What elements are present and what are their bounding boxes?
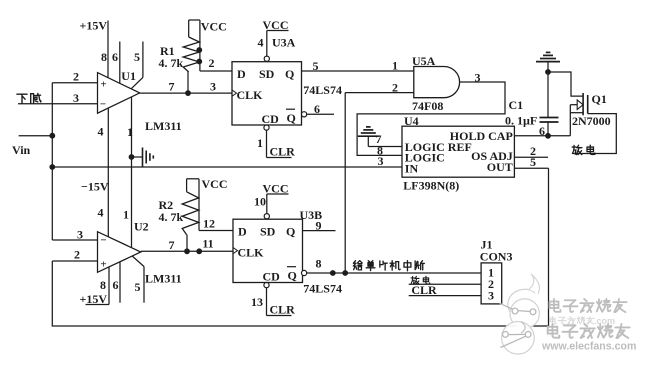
svg-text:0. 1µF: 0. 1µF [505, 114, 537, 128]
junction: ground tap on pin1 line [129, 154, 135, 160]
svg-text:2N7000: 2N7000 [572, 114, 611, 128]
svg-text:9: 9 [316, 219, 322, 233]
svg-text:LM311: LM311 [145, 272, 182, 286]
svg-text:3: 3 [475, 71, 481, 85]
U4 HOLD CAP wire pin 6 [514, 124, 570, 138]
op-amp U2 pin 2 input wire [52, 248, 97, 262]
svg-text:2: 2 [74, 248, 80, 262]
connector J1 CON3 [480, 238, 513, 304]
U3A Qbar bubble and stub pin 6 [302, 102, 335, 117]
junction: R1 bottom on U1 output [185, 90, 191, 96]
junction bus [49, 164, 55, 170]
transistor Q1 2N7000 [570, 92, 610, 136]
svg-text:74LS74: 74LS74 [303, 83, 342, 97]
svg-text:5: 5 [530, 155, 536, 169]
net label 给单片机中断 (interrupt to MCU) [353, 261, 424, 271]
svg-text:IN: IN [405, 162, 419, 176]
svg-text:OUT: OUT [487, 160, 513, 174]
svg-text:C1: C1 [509, 98, 524, 112]
svg-text:VCC: VCC [201, 20, 227, 34]
power VCC at R2 / U3B D wire pin 12 [187, 177, 233, 231]
svg-text:2: 2 [73, 70, 79, 84]
U3A CD bubble [264, 125, 269, 130]
junction dots on VCC stem [196, 47, 202, 53]
U3B SD bubble [264, 214, 269, 219]
svg-text:SD: SD [260, 225, 276, 239]
svg-text:LM311: LM311 [145, 119, 182, 133]
op-amp U1 pin 8 label [101, 50, 107, 64]
svg-text:7: 7 [169, 238, 175, 252]
svg-text:CLR: CLR [411, 283, 437, 297]
wire J1 pin 3 CLR [409, 283, 481, 297]
net label 放电 (discharge) at Q1 [572, 145, 595, 154]
svg-text:10: 10 [254, 195, 266, 209]
U3A SD bubble [264, 56, 269, 61]
svg-text:4. 7k: 4. 7k [159, 56, 184, 70]
svg-text:12: 12 [203, 217, 215, 231]
svg-text:U1: U1 [121, 69, 136, 83]
svg-text:3: 3 [210, 80, 216, 94]
svg-text:4: 4 [258, 36, 264, 50]
power VCC at U3A SD pin 4 [258, 18, 289, 56]
op-amp U2 pin 3 input wire [52, 228, 97, 242]
svg-text:SD: SD [259, 67, 275, 81]
node Vin input wire [12, 136, 52, 157]
svg-text:8: 8 [101, 50, 107, 64]
svg-text:1: 1 [127, 125, 133, 139]
U2 pin 6 lead [113, 262, 121, 303]
svg-text:LF398N(8): LF398N(8) [403, 178, 459, 192]
svg-text:CLR: CLR [270, 145, 296, 159]
svg-text:Vin: Vin [12, 143, 31, 157]
watermark text 电子发烧友 row 1 [550, 299, 627, 312]
svg-text:D: D [237, 67, 246, 81]
svg-text:CD: CD [262, 112, 280, 126]
svg-text:.com: .com [594, 316, 615, 326]
svg-text:CD: CD [263, 270, 281, 284]
svg-text:1: 1 [257, 136, 263, 150]
svg-text:+15V: +15V [80, 19, 108, 33]
svg-text:2: 2 [209, 56, 215, 70]
svg-text:Q: Q [285, 67, 294, 81]
junction on U2 output [196, 248, 202, 254]
svg-text:5: 5 [313, 59, 319, 73]
capacitor C1 0.1uF [505, 72, 559, 136]
svg-text:+: + [100, 259, 106, 271]
svg-text:11: 11 [202, 237, 213, 251]
watermark logo [500, 274, 540, 354]
junction: R2 bottom on U2 output [184, 248, 190, 254]
left vertical wire (Vin node) [51, 83, 53, 240]
earth ground (top right) [536, 52, 560, 72]
junction C1 on hold wire [545, 133, 551, 139]
U3B part number [303, 282, 342, 296]
watermark url [541, 341, 636, 353]
power +15V (top) [80, 19, 109, 78]
net label CLR at U3B pin 13 [251, 288, 295, 317]
svg-text:Q1: Q1 [592, 92, 607, 106]
power VCC at R1 / U3A D wire pin 2 [189, 20, 232, 72]
U3B CD bubble [264, 283, 269, 288]
U3A Q output wire pin 5 to U5A pin 1 [302, 59, 414, 74]
svg-text:6: 6 [314, 102, 320, 116]
svg-text:6: 6 [113, 278, 119, 292]
svg-text:8: 8 [316, 257, 322, 271]
svg-text:1: 1 [123, 208, 129, 222]
svg-text:74LS74: 74LS74 [303, 282, 342, 296]
svg-text:U3A: U3A [272, 36, 296, 50]
svg-text:6: 6 [539, 124, 545, 138]
U1 pin 2 input wire [52, 70, 97, 84]
svg-text:4: 4 [98, 125, 104, 139]
svg-text:2: 2 [392, 81, 398, 95]
op-amp U1 [98, 69, 182, 133]
svg-text:−: − [100, 235, 106, 247]
svg-text:8: 8 [100, 278, 106, 292]
feedback wire U4 OUT to U2 pin 2 [52, 168, 548, 326]
U1 pin 1 / U2 pin 1 vertical [123, 97, 133, 248]
svg-text:+: + [100, 79, 106, 91]
svg-text:VCC: VCC [202, 177, 228, 191]
svg-text:CON3: CON3 [480, 249, 513, 263]
svg-text:Q: Q [286, 225, 295, 239]
svg-text:www.elecfans.com: www.elecfans.com [541, 341, 636, 353]
svg-text:3: 3 [77, 228, 83, 242]
svg-text:D: D [238, 225, 247, 239]
svg-text:13: 13 [251, 295, 263, 309]
flip-flop U3B 74LS74 [233, 219, 303, 284]
svg-text:7: 7 [169, 80, 175, 94]
svg-text:CLK: CLK [238, 246, 265, 260]
power +15V (bottom) [80, 292, 110, 306]
watermark text 电子发烧友 row 2 [548, 324, 630, 338]
U4 OUT wire pin 5 [514, 155, 548, 169]
junction Vin [49, 133, 55, 139]
U3B Qbar bubble, wire pin 8 [302, 257, 482, 276]
net label CLR at U3A pin 1 [257, 130, 295, 158]
U2 output wire pin 7 to U3B CLK pin 11 [141, 237, 233, 253]
svg-text:3: 3 [378, 154, 384, 168]
watermark ghost row [550, 316, 615, 326]
U3A label [272, 36, 296, 50]
junction ground node [545, 69, 551, 75]
U4 pin labels 8 and 3 [377, 144, 384, 169]
sample-hold U4 LF398N(8) [402, 114, 514, 193]
svg-text:6: 6 [112, 50, 118, 64]
svg-text:3: 3 [488, 288, 494, 302]
wire Q1 gate to 放电 stub [573, 114, 616, 154]
svg-text:Q: Q [288, 269, 297, 283]
op-amp U2 [98, 220, 182, 286]
svg-text:U2: U2 [134, 220, 149, 234]
wire J1 pin 2 放电 [409, 276, 481, 284]
op-amp U1 pin 6 lead [112, 42, 120, 84]
U1 pin 4 / U2 pin 4 vertical with -15V net [81, 108, 109, 237]
svg-text:Q: Q [287, 111, 296, 125]
U5A input 2 wire from U3B Qbar [345, 81, 414, 274]
svg-text:−15V: −15V [81, 180, 109, 194]
U1 output wire pin 7 to U3A CLK pin 3 [140, 80, 232, 94]
resistor R2 4.7k [159, 179, 199, 252]
svg-text:U4: U4 [404, 114, 419, 128]
svg-text:5: 5 [134, 50, 140, 64]
svg-text:4: 4 [98, 206, 104, 220]
svg-text:1: 1 [392, 59, 398, 73]
svg-text:5: 5 [135, 280, 141, 294]
U2 pin 8 lead [100, 267, 109, 305]
flip-flop U3A 74LS74 [232, 62, 302, 127]
svg-text:−: − [100, 99, 106, 111]
svg-text:3: 3 [73, 91, 79, 105]
svg-text:4. 7k: 4. 7k [159, 210, 184, 224]
op-amp U1 pin 5 lead [131, 42, 143, 89]
U4 OS ADJ stub pin 2 [514, 144, 548, 158]
U3A part number [303, 83, 342, 97]
AND gate U5A 74F08 [412, 54, 460, 113]
U2 pin 5 lead [132, 256, 144, 303]
earth ground at U4 LOGIC REF pin 7 [358, 127, 402, 147]
svg-text:U5A: U5A [412, 54, 436, 68]
svg-text:CLK: CLK [237, 88, 264, 102]
resistor R1 4.7k [159, 20, 200, 93]
signal ground (rotated) at U1 pin 1 [132, 148, 154, 167]
junction dots on interrupt wire [330, 270, 336, 276]
svg-text:74F08: 74F08 [412, 99, 443, 113]
U3B label [300, 208, 323, 222]
U5A output wire pin 3 to U4 LOGIC pin 8 [357, 71, 505, 156]
svg-text:CLR: CLR [270, 303, 296, 317]
node 下阈 (lower threshold) input wire, pin 3 [17, 91, 98, 105]
power VCC at U3B SD pin 10 [254, 182, 289, 214]
U3B Q output stub pin 9 [303, 219, 336, 233]
wire ground to Q1 drain [548, 72, 583, 96]
signal bus wire Vin to U4 IN [52, 166, 402, 168]
